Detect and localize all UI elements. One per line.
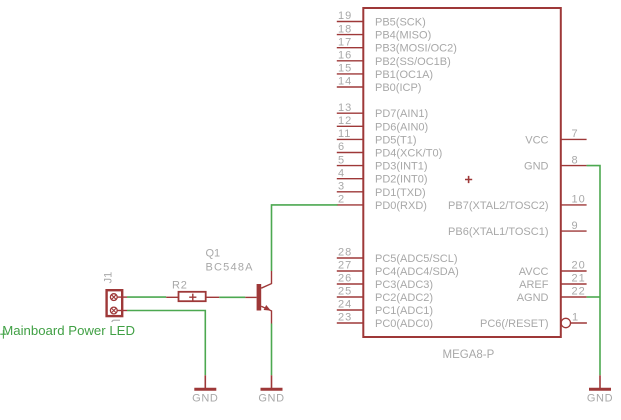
svg-text:GND: GND: [524, 161, 549, 173]
svg-text:PB5(SCK): PB5(SCK): [375, 17, 426, 29]
svg-text:22: 22: [572, 286, 586, 298]
svg-text:GND: GND: [258, 393, 284, 405]
svg-text:PB7(XTAL2/TOSC2): PB7(XTAL2/TOSC2): [448, 200, 548, 212]
svg-text:PC4(ADC4/SDA): PC4(ADC4/SDA): [375, 266, 459, 278]
svg-text:12: 12: [338, 115, 352, 127]
svg-text:PC6(/RESET): PC6(/RESET): [480, 318, 548, 330]
svg-text:8: 8: [572, 154, 579, 166]
svg-text:23: 23: [338, 312, 352, 324]
svg-text:2: 2: [338, 194, 345, 206]
svg-text:PD7(AIN1): PD7(AIN1): [375, 108, 428, 120]
svg-text:13: 13: [338, 102, 352, 114]
svg-text:17: 17: [338, 36, 352, 48]
svg-text:GND: GND: [587, 393, 613, 405]
svg-text:20: 20: [572, 260, 586, 272]
svg-text:26: 26: [338, 273, 352, 285]
svg-text:24: 24: [338, 299, 352, 311]
svg-text:PC3(ADC3): PC3(ADC3): [375, 279, 433, 291]
svg-text:5: 5: [338, 154, 345, 166]
svg-text:PB2(SS/OC1B): PB2(SS/OC1B): [375, 56, 451, 68]
svg-text:AGND: AGND: [517, 292, 549, 304]
svg-text:VCC: VCC: [525, 134, 548, 146]
svg-text:9: 9: [572, 220, 579, 232]
svg-text:PB4(MISO): PB4(MISO): [375, 30, 431, 42]
svg-text:AREF: AREF: [519, 279, 549, 291]
svg-text:14: 14: [338, 76, 352, 88]
svg-text:4: 4: [338, 167, 345, 179]
svg-text:PB3(MOSI/OC2): PB3(MOSI/OC2): [375, 43, 457, 55]
svg-text:PD0(RXD): PD0(RXD): [375, 200, 427, 212]
svg-text:PD5(T1): PD5(T1): [375, 134, 417, 146]
svg-text:25: 25: [338, 286, 352, 298]
svg-text:BC548A: BC548A: [206, 262, 254, 274]
svg-text:GND: GND: [192, 393, 218, 405]
svg-text:PC0(ADC0): PC0(ADC0): [375, 318, 433, 330]
svg-text:19: 19: [338, 10, 352, 22]
svg-text:PD1(TXD): PD1(TXD): [375, 187, 426, 199]
svg-text:AVCC: AVCC: [519, 266, 549, 278]
svg-text:MEGA8-P: MEGA8-P: [443, 349, 495, 361]
svg-text:15: 15: [338, 63, 352, 75]
svg-text:21: 21: [572, 273, 586, 285]
svg-text:18: 18: [338, 23, 352, 35]
svg-text:PC5(ADC5/SCL): PC5(ADC5/SCL): [375, 253, 458, 265]
svg-text:11: 11: [338, 128, 351, 140]
svg-text:J1: J1: [103, 272, 115, 284]
svg-text:Mainboard Power LED: Mainboard Power LED: [2, 323, 135, 338]
svg-text:PC2(ADC2): PC2(ADC2): [375, 292, 433, 304]
svg-text:PD2(INT0): PD2(INT0): [375, 174, 428, 186]
svg-text:PB0(ICP): PB0(ICP): [375, 82, 421, 94]
svg-text:PC1(ADC1): PC1(ADC1): [375, 305, 433, 317]
svg-text:R2: R2: [172, 279, 188, 291]
svg-text:7: 7: [572, 128, 579, 140]
svg-text:28: 28: [338, 247, 352, 259]
svg-text:Q1: Q1: [206, 247, 221, 259]
svg-text:PB6(XTAL1/TOSC1): PB6(XTAL1/TOSC1): [448, 226, 548, 238]
svg-text:PD3(INT1): PD3(INT1): [375, 161, 428, 173]
svg-text:10: 10: [572, 194, 586, 206]
svg-text:PB1(OC1A): PB1(OC1A): [375, 69, 433, 81]
svg-text:PD4(XCK/T0): PD4(XCK/T0): [375, 148, 442, 160]
svg-text:3: 3: [338, 181, 345, 193]
svg-text:PD6(AIN0): PD6(AIN0): [375, 121, 428, 133]
svg-text:1: 1: [572, 312, 579, 324]
svg-text:16: 16: [338, 50, 352, 62]
svg-text:6: 6: [338, 141, 345, 153]
svg-text:27: 27: [338, 260, 352, 272]
